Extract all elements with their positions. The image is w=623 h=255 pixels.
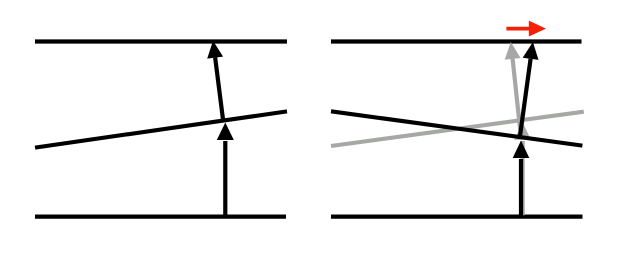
right panel gray slanted level line (recoil-free reference) <box>331 112 584 146</box>
right panel black slanted level line (recoiling) <box>331 111 582 145</box>
right panel lower level line <box>331 215 583 219</box>
right panel black upper photon arrow (tilted right) <box>520 42 539 138</box>
right panel gray lower photon arrow (vertical, behind black) <box>514 122 531 215</box>
left panel upper level line <box>35 39 287 43</box>
red momentum-shift arrow (points right, above upper level) <box>506 21 546 37</box>
left panel intermediate slanted level line <box>35 111 287 147</box>
left panel upper photon arrow (tilted left, black) <box>207 41 223 121</box>
right panel black lower photon arrow (vertical) <box>513 141 530 219</box>
left panel lower level line <box>35 215 286 219</box>
left panel lower photon arrow (vertical, black) <box>217 123 234 219</box>
right panel gray upper photon arrow (tilted left) <box>505 42 521 137</box>
right panel upper level line <box>331 39 582 43</box>
